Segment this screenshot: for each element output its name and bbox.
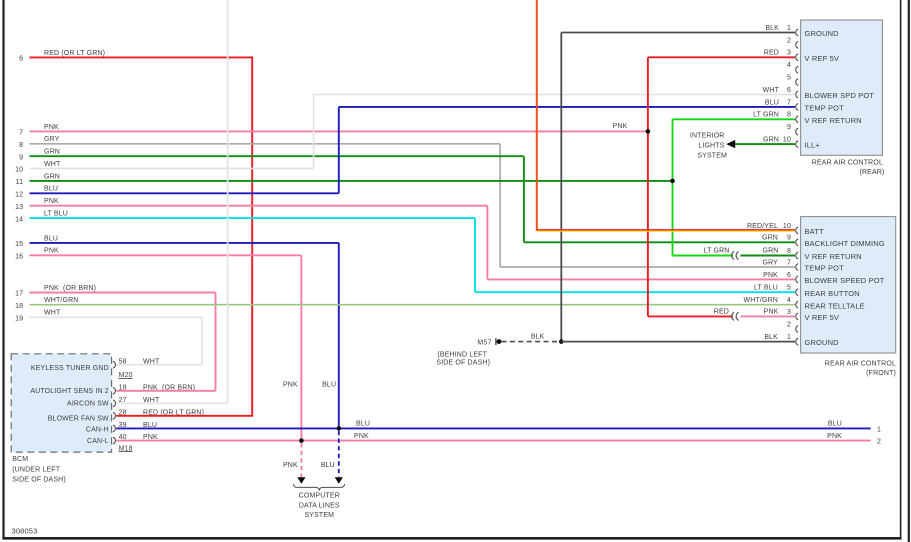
svg-text:PNK: PNK: [44, 124, 59, 131]
svg-text:WHT: WHT: [763, 87, 780, 94]
svg-text:PNK: PNK: [763, 272, 778, 279]
svg-text:GROUND: GROUND: [805, 338, 840, 347]
svg-text:RED: RED: [714, 308, 729, 315]
svg-text:LT BLU: LT BLU: [754, 285, 778, 292]
labels RED (( PNK on front pin 3 wire: [714, 308, 779, 315]
labels LT GRN (( GRN on front pin 8 wire: [704, 248, 779, 255]
svg-text:(BEHIND LEFT: (BEHIND LEFT: [437, 351, 487, 358]
dashed BLU drop from CAN-H junction to computer data lines: [338, 431, 340, 477]
svg-text:DATA LINES: DATA LINES: [299, 502, 340, 509]
svg-text:BACKLIGHT DIMMING: BACKLIGHT DIMMING: [805, 239, 885, 248]
svg-text:2: 2: [877, 439, 881, 446]
svg-text:LT GRN: LT GRN: [753, 112, 779, 119]
svg-text:7: 7: [787, 259, 791, 266]
svg-text:4: 4: [787, 297, 791, 304]
svg-text:M57: M57: [477, 339, 491, 346]
wire: BLK, ground junction to front pin 1 GROUND: [561, 341, 795, 343]
svg-text:SIDE OF DASH): SIDE OF DASH): [12, 477, 66, 484]
svg-text:PNK: PNK: [44, 248, 59, 255]
label: COMPUTER DATA LINES SYSTEM: [299, 492, 340, 519]
svg-text:PNK: PNK: [613, 123, 628, 130]
svg-text:12: 12: [15, 192, 23, 199]
svg-text:BLU: BLU: [44, 186, 58, 193]
title: REAR AIR CONTROL (FRONT): [825, 361, 896, 378]
svg-text:19: 19: [15, 316, 23, 323]
svg-text:KEYLESS TUNER GND: KEYLESS TUNER GND: [31, 365, 109, 372]
svg-text:RED: RED: [764, 50, 779, 57]
svg-text:10: 10: [15, 167, 23, 174]
svg-text:AUTOLIGHT SENS IN 2: AUTOLIGHT SENS IN 2: [30, 388, 108, 395]
svg-text:7: 7: [19, 130, 23, 137]
svg-text:REAR BUTTON: REAR BUTTON: [805, 289, 860, 298]
svg-text:INTERIOR: INTERIOR: [690, 132, 725, 139]
svg-text:BLU: BLU: [828, 421, 842, 428]
svg-text:18: 18: [15, 303, 23, 310]
svg-text:5: 5: [787, 75, 791, 82]
wire: GRN, interior lights arrow to rear pin 10 ILL+: [735, 143, 795, 145]
svg-text:6: 6: [787, 272, 791, 279]
svg-text:15: 15: [15, 241, 23, 248]
dashed BLK ground lead to M57: [502, 341, 560, 343]
svg-text:(FRONT): (FRONT): [866, 370, 896, 377]
svg-text:WHT/GRN: WHT/GRN: [744, 297, 779, 304]
wire: WHT, left pin 10 to rear pin 6 BLOWER SPD POT: [30, 95, 796, 169]
arrow down PNK: [297, 477, 305, 484]
svg-text:BLOWER SPEED POT: BLOWER SPEED POT: [805, 276, 885, 285]
svg-text:16: 16: [15, 254, 23, 261]
svg-text:11: 11: [16, 179, 24, 186]
connector box: BCM: [11, 354, 115, 452]
wire: RED (OR LT GRN), left pin 6 to BCM pin 28: [30, 56, 254, 415]
wire: BLU, left pin 15 to CAN-H junction: [30, 243, 339, 429]
front connector wire color labels: [744, 223, 779, 341]
svg-text:(REAR): (REAR): [859, 169, 884, 176]
ground eyelet M57: [496, 338, 502, 345]
svg-text:BLK: BLK: [765, 25, 779, 32]
svg-text:BLU: BLU: [322, 382, 336, 389]
svg-text:8: 8: [787, 112, 791, 119]
left connector pin numbers 6-19: [15, 56, 23, 323]
svg-text:308053: 308053: [12, 527, 38, 536]
splice connector (( on front pin 3 wire, RED to PNK: [732, 312, 739, 320]
svg-text:RED/YEL: RED/YEL: [747, 223, 778, 230]
svg-text:9: 9: [19, 154, 23, 161]
wire: GRY, left pin 8 to front pin 7 TEMP POT: [30, 144, 796, 267]
svg-text:LIGHTS: LIGHTS: [698, 142, 724, 149]
wire: WHT, left pin 19 to BCM pin 58: [30, 317, 203, 365]
svg-text:6: 6: [19, 56, 23, 63]
junction: pin 16 PNK joins CAN-L: [299, 438, 304, 443]
labels BLU / PNK after CAN junctions: [354, 421, 370, 440]
arrow to interior lights system: [726, 140, 735, 148]
diagram number 308053: [12, 527, 38, 536]
wire: WHT, BCM pin 27 going off top of page: [116, 0, 227, 403]
wire: GRN, left pin 9 to front pin 9 BACKLIGHT DIMMING: [30, 156, 796, 242]
svg-text:1: 1: [787, 25, 791, 32]
arrow down BLU: [335, 477, 343, 484]
svg-text:10: 10: [783, 137, 791, 144]
svg-text:PNK (OR BRN): PNK (OR BRN): [44, 285, 96, 292]
svg-text:REAR AIR CONTROL: REAR AIR CONTROL: [812, 160, 883, 167]
svg-text:WHT: WHT: [44, 161, 61, 168]
splice connector (( on front pin 8 wire, LT GRN to GRN: [732, 252, 739, 260]
label: INTERIOR LIGHTS SYSTEM: [690, 132, 727, 159]
junction: GRN pin11 wire joins LT GRN vertical (V REF RETURN net): [670, 179, 675, 184]
svg-text:BLOWER SPD POT: BLOWER SPD POT: [805, 91, 875, 100]
svg-text:REAR AIR CONTROL: REAR AIR CONTROL: [825, 361, 896, 368]
svg-text:8: 8: [787, 248, 791, 255]
svg-text:TEMP POT: TEMP POT: [805, 104, 845, 113]
right edge pin numbers 1 and 2: [877, 426, 881, 445]
wire: BLK, rear pin 1 GROUND down to M57 splice: [561, 33, 795, 342]
label (BEHIND LEFT SIDE OF DASH): [436, 351, 490, 366]
svg-text:GRY: GRY: [44, 136, 60, 143]
wire: PNK, splice to front pin 3 V REF 5V: [741, 315, 796, 317]
svg-text:WHT: WHT: [44, 310, 61, 317]
svg-text:14: 14: [15, 216, 23, 223]
svg-text:CAN-H: CAN-H: [86, 426, 109, 433]
svg-text:9: 9: [787, 124, 791, 131]
svg-text:3: 3: [787, 50, 791, 57]
brace under arrows: [294, 484, 345, 490]
label PNK on pin 7 wire near junction: [613, 123, 628, 130]
wire: PNK, left pin 7 to V REF 5V junction: [30, 130, 648, 132]
title: REAR AIR CONTROL (REAR): [812, 160, 885, 176]
svg-text:GRY: GRY: [763, 259, 779, 266]
wire: PNK, left pin 16 to CAN-L junction: [30, 255, 302, 440]
svg-text:PNK: PNK: [283, 462, 298, 469]
svg-text:PNK: PNK: [354, 433, 369, 440]
svg-text:SYSTEM: SYSTEM: [697, 152, 727, 159]
svg-text:9: 9: [787, 235, 791, 242]
svg-text:BLU: BLU: [356, 421, 370, 428]
svg-text:LT BLU: LT BLU: [44, 211, 68, 218]
svg-text:GRN: GRN: [762, 235, 778, 242]
svg-text:BLU: BLU: [321, 462, 335, 469]
wire: BLU, left pin 12 to rear pin 7 TEMP POT: [30, 107, 796, 193]
svg-text:V REF RETURN: V REF RETURN: [805, 252, 862, 261]
svg-text:10: 10: [783, 223, 791, 230]
svg-text:BATT: BATT: [805, 227, 824, 236]
labels PNK and BLU on dashed drops: [283, 462, 335, 469]
wire: RED, rear pin 3 V REF 5V down to front pin 3 splice: [648, 57, 795, 316]
left connector wire color labels: [44, 50, 105, 317]
svg-text:V REF 5V: V REF 5V: [805, 54, 840, 63]
wire: LT GRN, rear pin 8 V REF RETURN down to front pin 8 splice: [673, 119, 796, 255]
svg-text:13: 13: [15, 204, 23, 211]
svg-text:COMPUTER: COMPUTER: [299, 492, 340, 499]
svg-text:PNK: PNK: [764, 308, 779, 315]
wire: RED/YEL from top of page to front pin 10 BATT: [537, 0, 795, 231]
svg-text:PNK: PNK: [827, 433, 842, 440]
svg-text:BCM: BCM: [12, 456, 28, 463]
svg-text:REAR TELLTALE: REAR TELLTALE: [805, 301, 865, 310]
junction: BLK vertical joins front pin 1 ground wire: [559, 339, 564, 344]
wire: PNK, left pin 13 to front pin 6 BLOWER SPEED POT: [30, 206, 796, 280]
svg-text:BLU: BLU: [44, 235, 58, 242]
rear connector wire color labels BLK RED WHT BLU LT GRN GRN: [753, 25, 780, 144]
pin numbers 1-10 of rear air control connector: [783, 25, 791, 144]
svg-text:5: 5: [787, 285, 791, 292]
svg-text:1: 1: [877, 426, 881, 433]
connector box: REAR AIR CONTROL (FRONT): [796, 217, 896, 353]
BCM pin numbers 58, M20, 18, 27, 28, 39, 40, M18: [119, 358, 133, 452]
svg-text:GRN: GRN: [44, 149, 60, 156]
wire: GRN, left pin 11 to V REF RETURN junction: [30, 180, 673, 182]
svg-text:3: 3: [787, 309, 791, 316]
svg-text:TEMP POT: TEMP POT: [805, 264, 845, 273]
svg-text:(UNDER LEFT: (UNDER LEFT: [12, 467, 61, 474]
svg-text:PNK: PNK: [283, 382, 298, 389]
svg-text:WHT/GRN: WHT/GRN: [44, 297, 79, 304]
svg-text:BLU: BLU: [765, 99, 779, 106]
BCM wire color labels: [143, 358, 204, 441]
wire: LT BLU, left pin 14 to front pin 5 REAR BUTTON: [30, 218, 796, 292]
svg-text:AIRCON SW: AIRCON SW: [67, 401, 109, 408]
svg-text:6: 6: [787, 87, 791, 94]
labels BLU / PNK at right edge, pins 1 and 2: [827, 421, 842, 440]
svg-text:SYSTEM: SYSTEM: [304, 512, 334, 519]
svg-text:2: 2: [787, 37, 791, 44]
svg-text:GRN: GRN: [44, 173, 60, 180]
svg-text:BLOWER FAN SW: BLOWER FAN SW: [48, 415, 109, 422]
pin numbers 10-1 of front air control connector: [783, 223, 791, 341]
svg-text:ILL+: ILL+: [805, 141, 821, 150]
svg-text:1: 1: [787, 334, 791, 341]
svg-text:PNK: PNK: [44, 198, 59, 205]
svg-text:17: 17: [15, 291, 23, 298]
connector box: REAR AIR CONTROL (REAR): [796, 20, 883, 155]
svg-text:BLK: BLK: [531, 334, 545, 341]
svg-text:GRN: GRN: [763, 137, 779, 144]
wire: WHT/GRN, left pin 18 to front pin 4 REAR TELLTALE: [30, 304, 796, 306]
svg-text:SIDE OF DASH): SIDE OF DASH): [436, 360, 490, 367]
svg-text:8: 8: [19, 142, 23, 149]
dashed PNK drop from CAN-L junction to computer data lines: [300, 443, 302, 477]
svg-text:4: 4: [787, 62, 791, 69]
svg-text:LT GRN: LT GRN: [704, 248, 730, 255]
svg-text:GROUND: GROUND: [805, 29, 840, 38]
svg-text:BLK: BLK: [764, 334, 778, 341]
svg-text:V REF RETURN: V REF RETURN: [805, 116, 862, 125]
label M57: [477, 339, 491, 346]
svg-text:2: 2: [787, 321, 791, 328]
wire: BLU CAN-H, BCM pin 39 to right edge pin 1: [116, 427, 870, 429]
wire: GRN, splice to front pin 8 V REF RETURN: [741, 255, 796, 257]
svg-text:GRN: GRN: [762, 248, 778, 255]
svg-text:V REF 5V: V REF 5V: [805, 313, 840, 322]
junction: PNK pin7 wire joins RED vertical (V REF 5V net): [646, 129, 651, 134]
labels PNK and BLU above CAN junctions: [283, 382, 336, 389]
wire: PNK CAN-L, BCM pin 40 to right edge pin 2: [116, 440, 870, 442]
title: BCM (UNDER LEFT SIDE OF DASH): [12, 456, 66, 484]
junction: pin 15 BLU joins CAN-H: [337, 426, 342, 431]
svg-text:CAN-L: CAN-L: [87, 438, 109, 445]
svg-text:RED (OR LT GRN): RED (OR LT GRN): [44, 50, 105, 57]
wire: PNK (OR BRN), left pin 17 to BCM pin 18: [30, 293, 216, 391]
label BLK at ground splice: [531, 334, 545, 341]
svg-text:7: 7: [787, 99, 791, 106]
